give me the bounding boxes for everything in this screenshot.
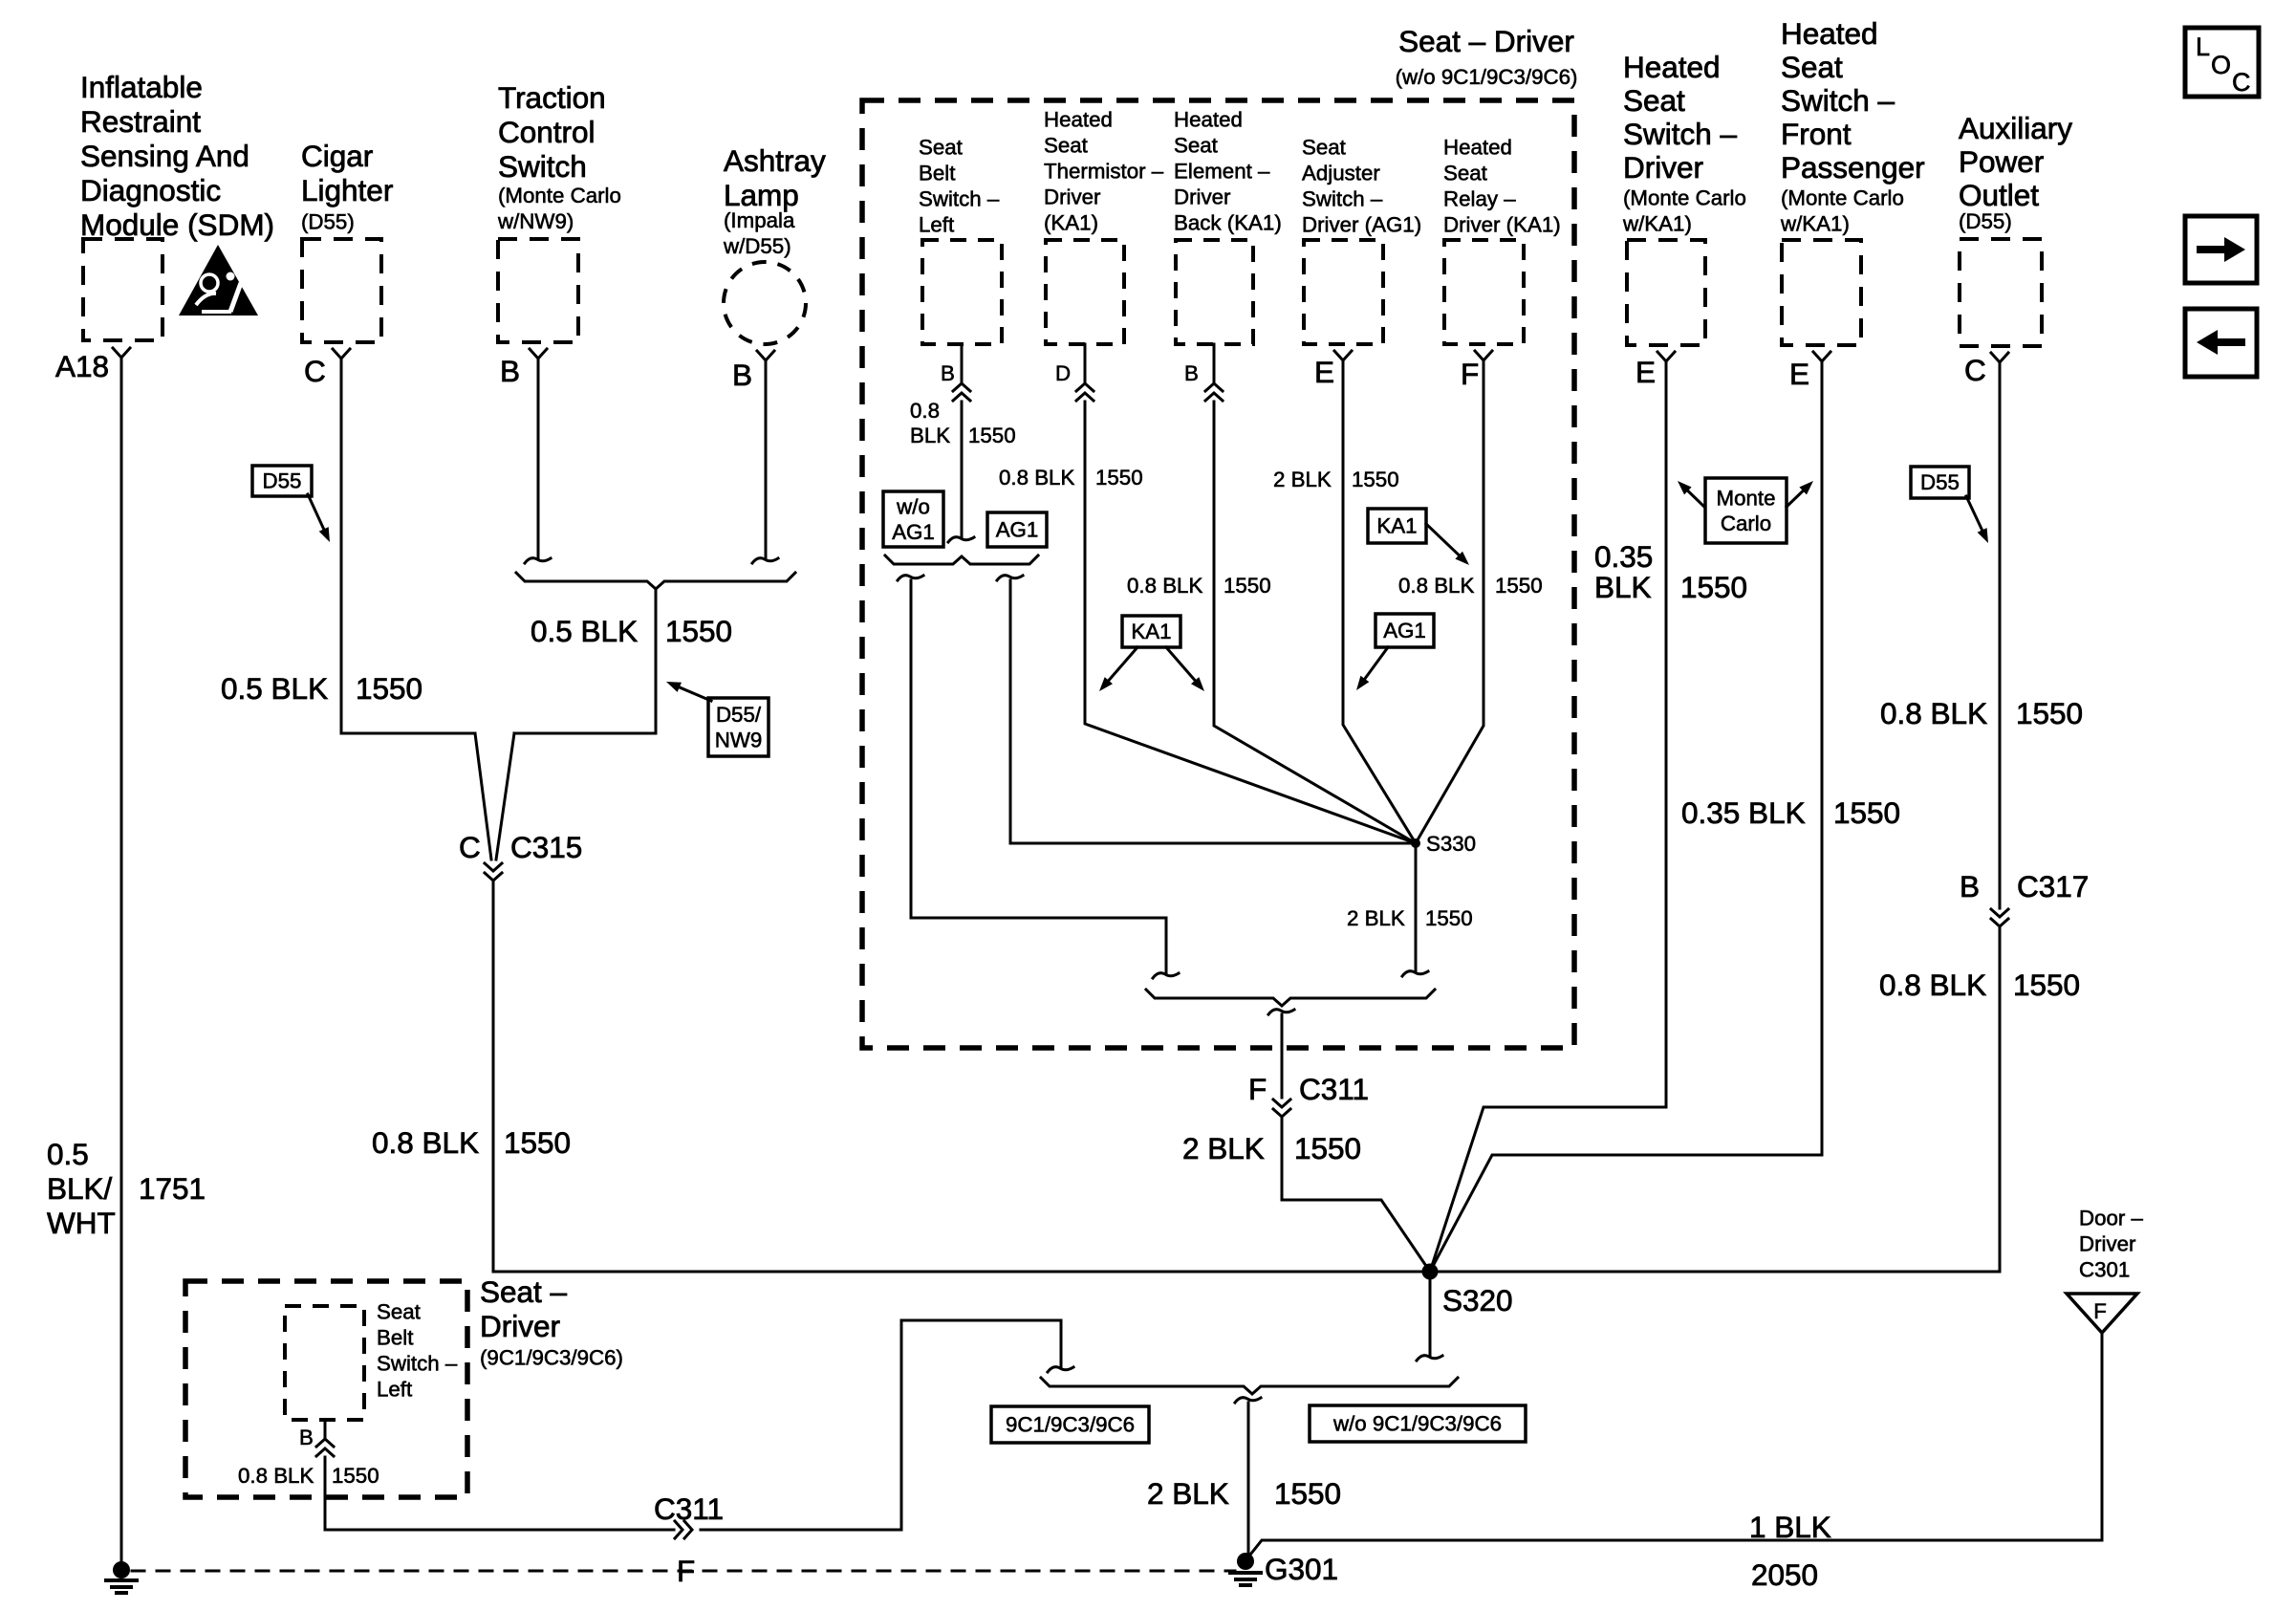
svg-text:C311: C311 <box>654 1491 724 1526</box>
svg-text:A18: A18 <box>55 349 109 383</box>
svg-text:1550: 1550 <box>1352 468 1399 491</box>
svg-text:Driver: Driver <box>1044 185 1101 209</box>
svg-text:BLK: BLK <box>1594 570 1652 604</box>
svg-text:Outlet: Outlet <box>1959 178 2039 212</box>
svg-text:L: L <box>2196 33 2210 61</box>
svg-text:S330: S330 <box>1426 832 1476 856</box>
svg-text:Relay –: Relay – <box>1443 187 1516 211</box>
svg-text:1550: 1550 <box>2013 968 2080 1002</box>
svg-text:0.8 BLK: 0.8 BLK <box>1880 696 1987 730</box>
svg-text:Passenger: Passenger <box>1781 150 1925 185</box>
svg-text:1550: 1550 <box>1680 570 1747 604</box>
svg-text:AG1: AG1 <box>1383 619 1426 642</box>
svg-text:Seat: Seat <box>1443 162 1488 185</box>
svg-text:0.8 BLK: 0.8 BLK <box>372 1125 479 1160</box>
svg-text:Switch –: Switch – <box>1302 187 1383 211</box>
svg-text:Switch –: Switch – <box>1781 83 1895 118</box>
svg-text:WHT: WHT <box>47 1206 116 1240</box>
svg-text:E: E <box>1789 357 1809 391</box>
svg-text:1550: 1550 <box>1425 906 1473 930</box>
svg-text:0.5 BLK: 0.5 BLK <box>221 671 328 706</box>
svg-text:BLK/: BLK/ <box>47 1171 113 1206</box>
svg-text:Thermistor –: Thermistor – <box>1044 160 1164 184</box>
svg-text:1550: 1550 <box>356 671 422 706</box>
svg-text:B: B <box>732 358 752 392</box>
svg-text:1550: 1550 <box>1095 466 1143 490</box>
svg-text:(Monte Carlo: (Monte Carlo <box>1623 186 1746 210</box>
svg-text:(KA1): (KA1) <box>1044 211 1098 235</box>
svg-text:Switch –: Switch – <box>1623 117 1738 151</box>
svg-text:Element –: Element – <box>1174 160 1270 184</box>
svg-text:Power: Power <box>1959 144 2044 179</box>
svg-text:Door –: Door – <box>2079 1207 2144 1230</box>
svg-text:1 BLK: 1 BLK <box>1749 1510 1831 1544</box>
svg-text:1550: 1550 <box>1224 574 1271 598</box>
svg-text:0.5: 0.5 <box>47 1137 89 1171</box>
svg-text:(9C1/9C3/9C6): (9C1/9C3/9C6) <box>480 1346 623 1370</box>
svg-text:D55: D55 <box>1920 470 1960 494</box>
svg-text:1550: 1550 <box>665 614 732 648</box>
svg-text:O: O <box>2211 51 2231 79</box>
svg-text:Lighter: Lighter <box>301 173 393 207</box>
svg-text:C: C <box>304 354 326 388</box>
svg-text:Cigar: Cigar <box>301 139 373 173</box>
svg-text:Ashtray: Ashtray <box>724 143 826 178</box>
svg-text:0.35: 0.35 <box>1594 539 1653 574</box>
svg-text:Seat: Seat <box>1044 134 1089 158</box>
svg-text:Front: Front <box>1781 117 1852 151</box>
svg-text:1550: 1550 <box>1833 795 1900 830</box>
svg-text:F: F <box>1461 357 1479 391</box>
svg-text:1550: 1550 <box>968 424 1016 447</box>
svg-text:E: E <box>1635 355 1656 389</box>
svg-text:0.8 BLK: 0.8 BLK <box>1127 574 1202 598</box>
svg-text:w/KA1): w/KA1) <box>1622 212 1692 236</box>
svg-text:F: F <box>2093 1299 2107 1323</box>
svg-text:KA1: KA1 <box>1131 620 1171 643</box>
svg-text:F: F <box>1248 1072 1267 1106</box>
svg-text:NW9: NW9 <box>715 729 763 752</box>
svg-text:B: B <box>500 354 520 388</box>
svg-text:Driver (KA1): Driver (KA1) <box>1443 213 1561 237</box>
svg-text:Driver: Driver <box>1623 150 1703 185</box>
svg-text:9C1/9C3/9C6: 9C1/9C3/9C6 <box>1006 1413 1135 1437</box>
svg-text:Driver (AG1): Driver (AG1) <box>1302 213 1421 237</box>
svg-text:D55: D55 <box>263 469 302 493</box>
svg-text:Monte: Monte <box>1717 487 1776 511</box>
svg-text:(Impala: (Impala <box>724 208 795 232</box>
svg-text:Heated: Heated <box>1623 50 1721 84</box>
svg-text:C311: C311 <box>1299 1072 1369 1106</box>
svg-text:B: B <box>1184 361 1199 385</box>
svg-text:2 BLK: 2 BLK <box>1182 1131 1265 1165</box>
svg-text:2 BLK: 2 BLK <box>1347 906 1405 930</box>
svg-text:0.8 BLK: 0.8 BLK <box>999 466 1074 490</box>
svg-text:(w/o 9C1/9C3/9C6): (w/o 9C1/9C3/9C6) <box>1396 65 1578 89</box>
svg-text:0.8 BLK: 0.8 BLK <box>1879 968 1986 1002</box>
svg-text:(D55): (D55) <box>1959 209 2012 233</box>
svg-text:Seat –: Seat – <box>480 1274 568 1309</box>
svg-text:1550: 1550 <box>1294 1131 1361 1165</box>
svg-text:1550: 1550 <box>504 1125 571 1160</box>
svg-text:B: B <box>1960 869 1980 903</box>
svg-text:Driver: Driver <box>480 1309 560 1343</box>
svg-text:Seat: Seat <box>1623 83 1685 118</box>
svg-text:w/D55): w/D55) <box>723 234 791 258</box>
svg-text:w/NW9): w/NW9) <box>497 209 574 233</box>
svg-text:(D55): (D55) <box>301 210 355 234</box>
svg-text:E: E <box>1314 355 1334 389</box>
svg-text:AG1: AG1 <box>892 520 935 544</box>
svg-text:1550: 1550 <box>2016 696 2083 730</box>
svg-text:Seat: Seat <box>919 136 964 160</box>
svg-text:Heated: Heated <box>1044 108 1113 132</box>
svg-text:Seat – Driver: Seat – Driver <box>1398 24 1574 58</box>
svg-text:2050: 2050 <box>1751 1557 1818 1592</box>
svg-text:Seat: Seat <box>1302 136 1347 160</box>
svg-text:KA1: KA1 <box>1376 514 1417 538</box>
svg-text:Restraint: Restraint <box>80 104 201 139</box>
svg-text:Back (KA1): Back (KA1) <box>1174 211 1282 235</box>
svg-text:BLK: BLK <box>910 424 950 447</box>
svg-text:Seat: Seat <box>1781 50 1843 84</box>
svg-text:Adjuster: Adjuster <box>1302 162 1380 185</box>
svg-text:2 BLK: 2 BLK <box>1273 468 1332 491</box>
svg-text:Left: Left <box>919 213 955 237</box>
svg-text:F: F <box>677 1554 695 1588</box>
svg-text:C315: C315 <box>510 830 582 864</box>
svg-text:Switch –: Switch – <box>919 187 1000 211</box>
svg-text:Traction: Traction <box>498 80 606 115</box>
svg-text:0.5 BLK: 0.5 BLK <box>531 614 638 648</box>
svg-text:0.35 BLK: 0.35 BLK <box>1681 795 1806 830</box>
svg-text:D55/: D55/ <box>716 703 762 727</box>
svg-text:Module (SDM): Module (SDM) <box>80 207 274 242</box>
svg-text:Driver: Driver <box>1174 185 1231 209</box>
svg-text:Seat: Seat <box>1174 134 1219 158</box>
svg-text:0.8 BLK: 0.8 BLK <box>238 1464 314 1488</box>
svg-text:Belt: Belt <box>919 162 956 185</box>
svg-text:1550: 1550 <box>1274 1476 1341 1511</box>
svg-text:C301: C301 <box>2079 1258 2130 1282</box>
svg-text:Switch: Switch <box>498 149 587 184</box>
svg-text:AG1: AG1 <box>996 518 1039 542</box>
svg-text:w/o: w/o <box>896 495 930 519</box>
svg-text:Belt: Belt <box>377 1326 414 1350</box>
svg-text:0.8 BLK: 0.8 BLK <box>1398 574 1474 598</box>
svg-text:B: B <box>941 361 955 385</box>
svg-text:D: D <box>1055 361 1071 385</box>
svg-text:Sensing And: Sensing And <box>80 139 249 173</box>
svg-text:Switch –: Switch – <box>377 1352 458 1376</box>
svg-text:w/o 9C1/9C3/9C6: w/o 9C1/9C3/9C6 <box>1332 1412 1502 1436</box>
svg-text:Diagnostic: Diagnostic <box>80 173 221 207</box>
svg-text:w/KA1): w/KA1) <box>1780 212 1850 236</box>
svg-text:Auxiliary: Auxiliary <box>1959 111 2072 145</box>
svg-text:Heated: Heated <box>1781 16 1878 51</box>
svg-text:Heated: Heated <box>1443 136 1512 160</box>
svg-text:2 BLK: 2 BLK <box>1147 1476 1229 1511</box>
svg-text:S320: S320 <box>1442 1283 1513 1317</box>
svg-text:Inflatable: Inflatable <box>80 70 203 104</box>
svg-text:Seat: Seat <box>377 1300 422 1324</box>
svg-text:Left: Left <box>377 1378 413 1402</box>
svg-text:C: C <box>1964 353 1986 387</box>
svg-text:(Monte Carlo: (Monte Carlo <box>498 184 621 207</box>
svg-text:1550: 1550 <box>332 1464 379 1488</box>
svg-text:C: C <box>2232 68 2251 97</box>
svg-text:Control: Control <box>498 115 596 149</box>
svg-text:G301: G301 <box>1265 1552 1338 1586</box>
svg-text:Heated: Heated <box>1174 108 1243 132</box>
svg-text:0.8: 0.8 <box>910 399 940 423</box>
svg-text:Carlo: Carlo <box>1721 512 1771 535</box>
svg-text:Lamp: Lamp <box>724 178 799 212</box>
svg-text:1550: 1550 <box>1495 574 1543 598</box>
svg-text:(Monte Carlo: (Monte Carlo <box>1781 186 1904 210</box>
svg-text:C317: C317 <box>2017 869 2089 903</box>
svg-text:1751: 1751 <box>139 1171 206 1206</box>
svg-text:C: C <box>459 830 481 864</box>
svg-text:B: B <box>299 1426 314 1449</box>
svg-text:Driver: Driver <box>2079 1232 2136 1256</box>
